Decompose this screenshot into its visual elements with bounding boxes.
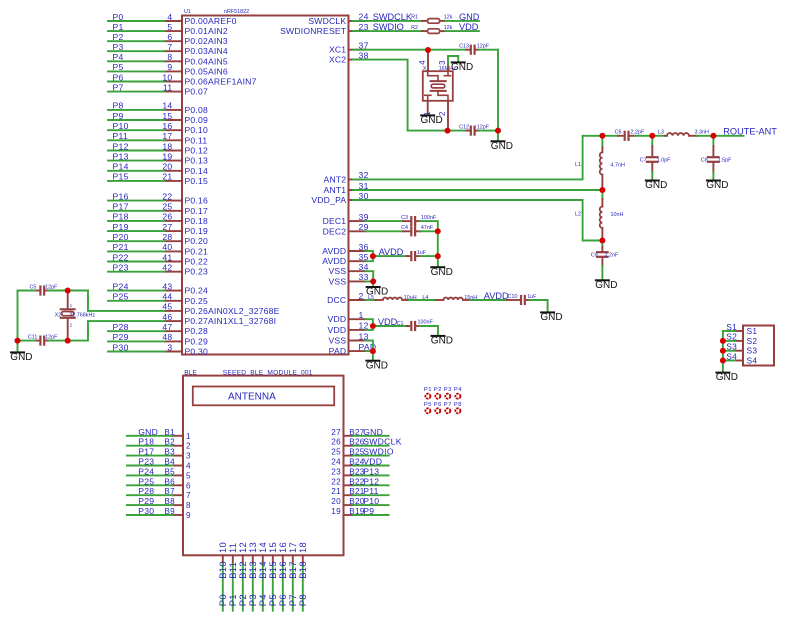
svg-text:P7: P7 bbox=[113, 82, 124, 92]
svg-text:S3: S3 bbox=[726, 342, 737, 352]
svg-text:P24: P24 bbox=[113, 281, 129, 291]
junction XC1/X1-4 bbox=[425, 47, 431, 53]
svg-text:P8: P8 bbox=[113, 101, 124, 111]
BLE pin 4 (B4) / net P23 bbox=[127, 457, 191, 471]
BLE pin 11 (B11) / net P1 bbox=[227, 543, 238, 611]
wire ANT1 (pin31 to L1/L2 junction) bbox=[353, 189, 602, 191]
U1 pin 7 (P0.03AIN4) / net P3 bbox=[108, 42, 228, 56]
U1 pin 28 (P0.20) / net P20 bbox=[108, 232, 208, 246]
U1 pin 37 (XC1) bbox=[329, 41, 369, 55]
U1 pin 23 (SWDIONRESET) bbox=[280, 22, 369, 36]
svg-text:P6: P6 bbox=[113, 72, 124, 82]
svg-text:SEEED_BLE_MODULE_001: SEEED_BLE_MODULE_001 bbox=[223, 369, 313, 376]
svg-text:11: 11 bbox=[163, 82, 173, 92]
svg-text:P9: P9 bbox=[363, 506, 374, 516]
svg-text:21: 21 bbox=[331, 487, 341, 496]
svg-text:VSS: VSS bbox=[329, 276, 347, 286]
wire DEC1 (pin39 to C3) bbox=[366, 220, 404, 222]
svg-text:P25: P25 bbox=[113, 292, 129, 302]
svg-text:GND: GND bbox=[645, 180, 667, 191]
test pad P8 bbox=[454, 402, 462, 413]
U1 pin 39 (DEC1) bbox=[323, 212, 369, 226]
svg-text:SWDCLK: SWDCLK bbox=[373, 12, 413, 22]
svg-text:100nF: 100nF bbox=[421, 215, 437, 221]
inductor L4 15nH bbox=[436, 295, 477, 301]
svg-text:P0.25: P0.25 bbox=[185, 296, 208, 306]
IC BLE SEEED_BLE_MODULE_001 body bbox=[183, 369, 344, 555]
U1 pin 4 (P0.00AREF0) / net P0 bbox=[108, 12, 237, 26]
svg-text:P0.24: P0.24 bbox=[185, 286, 208, 296]
svg-text:P30: P30 bbox=[113, 342, 129, 352]
svg-text:R1: R1 bbox=[411, 15, 418, 21]
junction X2 rail/GND bbox=[15, 338, 21, 344]
BLE pin 22 (B22) / net P12 bbox=[331, 476, 388, 486]
svg-text:P0.30: P0.30 bbox=[185, 347, 208, 357]
svg-text:48: 48 bbox=[162, 332, 172, 342]
junction S3 bbox=[720, 348, 726, 354]
ground GND (C10) bbox=[540, 312, 562, 323]
svg-text:GND: GND bbox=[595, 280, 617, 291]
svg-text:AVDD: AVDD bbox=[322, 246, 346, 256]
svg-text:P20: P20 bbox=[113, 232, 129, 242]
svg-text:VDD: VDD bbox=[328, 314, 347, 324]
wire XC2 (pin38 around crystal) bbox=[353, 60, 448, 131]
junction AVDD branch bbox=[370, 253, 376, 259]
U1 pin 8 (P0.04AIN5) / net P4 bbox=[108, 52, 228, 66]
crystal X1 16MHz body bbox=[423, 66, 456, 101]
svg-text:42: 42 bbox=[162, 263, 172, 273]
svg-text:6: 6 bbox=[167, 32, 172, 42]
inductor L5 10uH bbox=[376, 295, 417, 301]
svg-text:C7: C7 bbox=[640, 158, 647, 164]
capacitor C8 1.5pF bbox=[701, 136, 732, 180]
svg-text:P14: P14 bbox=[113, 162, 129, 172]
svg-text:L2: L2 bbox=[575, 212, 581, 218]
X1 pin 4 lead bbox=[418, 50, 428, 71]
U1 pin 6 (P0.02AIN3) / net P2 bbox=[108, 32, 228, 46]
svg-text:43: 43 bbox=[162, 281, 172, 291]
svg-text:S2: S2 bbox=[726, 332, 737, 342]
net SWDIO wire + label bbox=[353, 22, 422, 32]
capacitor C5 12pF bbox=[29, 285, 58, 295]
svg-text:P0.09: P0.09 bbox=[185, 115, 208, 125]
test pad P7 bbox=[444, 402, 452, 413]
svg-text:2: 2 bbox=[438, 112, 447, 116]
inductor L2 10nH bbox=[575, 190, 623, 241]
svg-text:P3: P3 bbox=[113, 42, 124, 52]
svg-text:SWDIONRESET: SWDIONRESET bbox=[280, 26, 347, 36]
svg-text:XC1: XC1 bbox=[329, 45, 346, 55]
svg-text:P0.14: P0.14 bbox=[185, 166, 208, 176]
connector pin S2 / net S2 bbox=[723, 332, 757, 346]
svg-text:L3: L3 bbox=[658, 130, 664, 136]
capacitor C10 1uF bbox=[507, 294, 537, 304]
svg-text:14: 14 bbox=[162, 101, 172, 111]
svg-text:P6: P6 bbox=[434, 402, 442, 408]
U1 pin 14 (P0.08) / net P8 bbox=[108, 101, 208, 115]
U1 pin 43 (P0.24) / net P24 bbox=[108, 281, 208, 295]
svg-text:5: 5 bbox=[167, 22, 172, 32]
BLE pin 19 (B19) / net P9 bbox=[331, 506, 388, 516]
svg-text:27: 27 bbox=[162, 222, 172, 232]
svg-text:12pF: 12pF bbox=[477, 124, 490, 130]
ANTENNA block bbox=[193, 387, 334, 406]
svg-text:GND: GND bbox=[491, 141, 513, 152]
wire VDD bracket (pins 1+12) bbox=[366, 319, 373, 330]
svg-text:47nF: 47nF bbox=[421, 225, 434, 231]
svg-text:P1: P1 bbox=[424, 387, 432, 393]
svg-text:P0.26AIN0XL2_32768E: P0.26AIN0XL2_32768E bbox=[185, 306, 280, 316]
svg-text:P2: P2 bbox=[434, 387, 442, 393]
svg-text:4: 4 bbox=[186, 462, 191, 471]
svg-text:C4: C4 bbox=[401, 225, 408, 231]
ground GND (C9) bbox=[595, 280, 617, 291]
U1 pin 24 (SWDCLK) bbox=[308, 12, 368, 26]
junction L3/C8/ROUTE-ANT bbox=[710, 133, 716, 139]
svg-text:3.3nH: 3.3nH bbox=[695, 130, 709, 136]
svg-text:40: 40 bbox=[162, 242, 172, 252]
svg-text:1: 1 bbox=[359, 310, 364, 320]
U1 pin 47 (P0.28) / net P28 bbox=[108, 322, 208, 336]
svg-text:P12: P12 bbox=[113, 141, 129, 151]
svg-text:P0.28: P0.28 bbox=[185, 326, 208, 336]
net VDD label (R2) bbox=[445, 22, 479, 32]
wire VDD_PA (pin30 to L2 bottom) bbox=[353, 200, 602, 241]
capacitor C3 100nF bbox=[401, 215, 437, 225]
BLE pin 5 (B5) / net P24 bbox=[127, 466, 191, 480]
svg-text:P0.00AREF0: P0.00AREF0 bbox=[185, 16, 237, 26]
svg-text:P0.18: P0.18 bbox=[185, 216, 208, 226]
svg-text:VDD: VDD bbox=[328, 325, 347, 335]
wire VSS bracket (pins 34+33) bbox=[366, 271, 374, 281]
svg-text:GND: GND bbox=[716, 372, 738, 383]
U1 pin 17 (P0.11) / net P11 bbox=[108, 131, 207, 145]
svg-text:P0.07: P0.07 bbox=[185, 87, 208, 97]
svg-text:C9: C9 bbox=[591, 253, 598, 259]
svg-text:AVDD: AVDD bbox=[379, 247, 404, 257]
svg-text:ANT1: ANT1 bbox=[324, 185, 347, 195]
svg-text:AVDD: AVDD bbox=[484, 291, 509, 301]
svg-text:12pF: 12pF bbox=[477, 43, 490, 49]
BLE pin 2 (B2) / net P18 bbox=[127, 437, 191, 451]
svg-text:DEC2: DEC2 bbox=[323, 226, 347, 236]
wire XC1 right rail bbox=[479, 50, 498, 131]
svg-text:P28: P28 bbox=[138, 486, 154, 496]
inductor L1 4.7nH bbox=[575, 136, 625, 190]
BLE pin 9 (B9) / net P30 bbox=[127, 506, 191, 520]
svg-text:9: 9 bbox=[186, 511, 191, 520]
svg-text:GND: GND bbox=[451, 62, 473, 73]
U1 pin 38 (XC2) bbox=[329, 50, 369, 64]
svg-text:P13: P13 bbox=[113, 151, 129, 161]
ground GND (X1 pin3) bbox=[451, 56, 473, 73]
svg-text:B9: B9 bbox=[164, 507, 175, 516]
junction rail bottom bbox=[495, 128, 501, 134]
svg-text:P15: P15 bbox=[113, 172, 129, 182]
svg-text:GND: GND bbox=[459, 12, 480, 22]
svg-text:L1: L1 bbox=[575, 162, 581, 168]
svg-text:B18: B18 bbox=[297, 561, 308, 579]
junction X2 top bbox=[65, 288, 71, 294]
wire X2 top to pin45 bbox=[68, 291, 88, 311]
svg-text:9: 9 bbox=[167, 62, 172, 72]
U1 pin 5 (P0.01AIN2) / net P1 bbox=[108, 22, 228, 36]
svg-text:ROUTE-ANT: ROUTE-ANT bbox=[723, 127, 777, 137]
svg-text:P17: P17 bbox=[138, 447, 154, 457]
svg-text:P0.06AREF1AIN7: P0.06AREF1AIN7 bbox=[185, 77, 257, 87]
wire VSS13/PAD bracket bbox=[366, 341, 373, 352]
svg-text:P23: P23 bbox=[138, 457, 154, 467]
svg-text:C1: C1 bbox=[397, 321, 404, 327]
junction DEC rail bbox=[435, 228, 441, 234]
svg-text:4: 4 bbox=[167, 12, 172, 22]
svg-text:GND: GND bbox=[431, 336, 453, 347]
capacitor C12 12pF bbox=[448, 124, 490, 134]
svg-text:P23: P23 bbox=[113, 263, 129, 273]
svg-text:P3: P3 bbox=[444, 387, 452, 393]
svg-text:P4: P4 bbox=[454, 387, 462, 393]
svg-text:C13: C13 bbox=[459, 43, 469, 49]
svg-text:C10: C10 bbox=[508, 294, 518, 300]
svg-text:10: 10 bbox=[162, 72, 172, 82]
svg-text:L4: L4 bbox=[422, 295, 428, 301]
svg-text:B8: B8 bbox=[164, 497, 175, 506]
svg-text:P1: P1 bbox=[113, 22, 124, 32]
BLE pin 15 (B15) / net P5 bbox=[267, 542, 278, 611]
svg-text:XC2: XC2 bbox=[329, 55, 346, 65]
svg-text:1.5pF: 1.5pF bbox=[718, 158, 732, 164]
svg-text:18: 18 bbox=[297, 542, 308, 553]
BLE pin 7 (B7) / net P28 bbox=[127, 486, 191, 500]
svg-text:P2: P2 bbox=[113, 32, 124, 42]
U1 pin 34 (VSS) bbox=[329, 262, 369, 276]
svg-text:VDD: VDD bbox=[459, 22, 479, 32]
svg-text:41: 41 bbox=[162, 252, 172, 262]
svg-text:R2: R2 bbox=[411, 25, 418, 31]
svg-text:P10: P10 bbox=[363, 496, 379, 506]
U1 pin PAD (PAD) bbox=[329, 342, 377, 356]
svg-text:P11: P11 bbox=[363, 486, 379, 496]
svg-text:P0.22: P0.22 bbox=[185, 257, 208, 267]
capacitor C4 47nF bbox=[401, 225, 434, 235]
svg-text:2.2nF: 2.2nF bbox=[605, 253, 619, 259]
svg-text:PAD: PAD bbox=[329, 346, 347, 356]
U1 pin 35 (AVDD) bbox=[322, 252, 368, 266]
U1 pin 10 (P0.06AREF1AIN7) / net P6 bbox=[108, 72, 257, 86]
test pad P4 bbox=[454, 387, 462, 399]
junction ANT2/C6/L1 bbox=[599, 133, 605, 139]
svg-text:25: 25 bbox=[162, 202, 172, 212]
svg-text:P0: P0 bbox=[113, 12, 124, 22]
svg-text:26: 26 bbox=[162, 212, 172, 222]
connector pin S1 / net S1 bbox=[723, 322, 757, 336]
svg-text:SWDCLK: SWDCLK bbox=[363, 437, 402, 447]
svg-text:23: 23 bbox=[331, 467, 341, 476]
BLE pin 20 (B20) / net P10 bbox=[331, 496, 388, 506]
svg-text:P12: P12 bbox=[363, 476, 379, 486]
svg-text:C11: C11 bbox=[28, 335, 38, 341]
svg-text:P28: P28 bbox=[113, 322, 129, 332]
svg-text:B1: B1 bbox=[164, 428, 175, 437]
svg-text:S4: S4 bbox=[747, 356, 758, 366]
test pad P5 bbox=[424, 402, 432, 413]
wire S rail bbox=[722, 331, 724, 372]
ground GND (VSS 34/33) bbox=[366, 281, 388, 297]
svg-text:VSS: VSS bbox=[329, 336, 347, 346]
svg-text:1.0pF: 1.0pF bbox=[657, 158, 671, 164]
U1 pin 18 (P0.12) / net P12 bbox=[108, 141, 208, 155]
U1 pin 9 (P0.05AIN6) / net P5 bbox=[108, 62, 228, 76]
svg-text:C12: C12 bbox=[459, 124, 469, 130]
U1 pin 32 (ANT2) bbox=[324, 170, 369, 184]
U1 pin 48 (P0.29) / net P29 bbox=[108, 332, 208, 346]
U1 pin 40 (P0.21) / net P21 bbox=[108, 242, 208, 256]
IC U1 nRF51822 body bbox=[182, 9, 349, 354]
svg-text:100nF: 100nF bbox=[418, 320, 434, 326]
svg-text:2: 2 bbox=[186, 442, 191, 451]
svg-text:7: 7 bbox=[186, 491, 191, 500]
svg-text:P0.13: P0.13 bbox=[185, 156, 208, 166]
svg-text:C5: C5 bbox=[29, 285, 36, 291]
wire X2 bottom (C11 row) bbox=[18, 340, 37, 342]
svg-text:S3: S3 bbox=[747, 346, 758, 356]
svg-text:GND: GND bbox=[10, 352, 32, 363]
ground GND (X2) bbox=[10, 341, 32, 363]
test pad P1 bbox=[424, 387, 432, 399]
svg-text:P13: P13 bbox=[363, 466, 379, 476]
crystal X2 32.768kHz bbox=[55, 291, 96, 341]
wire AVDD bracket (pins 36+35) bbox=[366, 251, 373, 261]
wire X2 top (C5 row) bbox=[18, 290, 37, 292]
wire ANT2 (pin32 to C6 junction) bbox=[353, 136, 602, 180]
svg-text:P18: P18 bbox=[113, 212, 129, 222]
wire C4 to GND rail bbox=[420, 230, 438, 232]
svg-text:B2: B2 bbox=[164, 438, 175, 447]
svg-text:P0.16: P0.16 bbox=[185, 196, 208, 206]
ground GND (X1 pin1) bbox=[421, 115, 443, 126]
svg-text:P0.04AIN5: P0.04AIN5 bbox=[185, 56, 228, 66]
svg-text:P0.20: P0.20 bbox=[185, 236, 208, 246]
svg-text:17: 17 bbox=[162, 131, 172, 141]
svg-text:B3: B3 bbox=[164, 448, 175, 457]
svg-text:21: 21 bbox=[162, 172, 172, 182]
svg-text:GND: GND bbox=[138, 427, 158, 437]
svg-text:DCC: DCC bbox=[327, 295, 346, 305]
svg-text:C6: C6 bbox=[615, 130, 622, 136]
svg-text:3: 3 bbox=[438, 60, 447, 64]
svg-text:P0.05AIN6: P0.05AIN6 bbox=[185, 66, 228, 76]
U1 pin 1 (VDD) bbox=[328, 310, 366, 324]
svg-text:P0.12: P0.12 bbox=[185, 146, 208, 156]
svg-text:P22: P22 bbox=[113, 252, 129, 262]
svg-text:P17: P17 bbox=[113, 202, 129, 212]
capacitor C2 1uF (AVDD) bbox=[407, 250, 427, 260]
svg-text:P0.03AIN4: P0.03AIN4 bbox=[185, 46, 228, 56]
svg-text:2: 2 bbox=[359, 291, 364, 301]
wire C2 to GND rail bbox=[420, 255, 438, 257]
svg-text:16: 16 bbox=[162, 121, 172, 131]
U1 pin 22 (P0.16) / net P16 bbox=[108, 191, 208, 205]
svg-text:24: 24 bbox=[331, 458, 341, 467]
BLE pin 24 (B24) / net VDD bbox=[331, 457, 388, 467]
resistor R2 12k bbox=[411, 25, 453, 34]
svg-text:26: 26 bbox=[331, 438, 341, 447]
svg-text:P29: P29 bbox=[113, 332, 129, 342]
svg-text:P5: P5 bbox=[424, 402, 432, 408]
svg-text:20: 20 bbox=[331, 497, 341, 506]
svg-text:GND: GND bbox=[366, 360, 388, 371]
BLE pin 26 (B26) / net SWDCLK bbox=[331, 437, 401, 447]
svg-text:P4: P4 bbox=[113, 52, 124, 62]
svg-text:P7: P7 bbox=[444, 402, 452, 408]
U1 pin 2 (DCC) bbox=[327, 291, 365, 305]
svg-text:GND: GND bbox=[431, 267, 453, 278]
svg-text:27: 27 bbox=[331, 428, 341, 437]
svg-text:VDD_PA: VDD_PA bbox=[311, 195, 346, 205]
svg-text:4: 4 bbox=[418, 60, 427, 65]
ground GND (C7) bbox=[645, 180, 667, 191]
junction L2/VDD_PA/C9 bbox=[599, 238, 605, 244]
test pad P2 bbox=[434, 387, 442, 399]
capacitor C1 100nF bbox=[397, 320, 434, 330]
svg-text:P5: P5 bbox=[113, 62, 124, 72]
svg-text:P19: P19 bbox=[113, 222, 129, 232]
ground GND (C1) bbox=[431, 336, 453, 347]
U1 pin 12 (VDD) bbox=[328, 321, 369, 335]
svg-text:6: 6 bbox=[186, 481, 191, 490]
ground GND (PAD) bbox=[366, 351, 388, 371]
resistor R1 12k bbox=[411, 15, 453, 24]
svg-text:P9: P9 bbox=[113, 111, 124, 121]
connector pin S4 / net S4 bbox=[723, 351, 757, 365]
svg-text:28: 28 bbox=[162, 232, 172, 242]
svg-text:P0.01AIN2: P0.01AIN2 bbox=[185, 26, 228, 36]
svg-text:P0.17: P0.17 bbox=[185, 206, 208, 216]
svg-text:22: 22 bbox=[162, 191, 172, 201]
junction VDD branch bbox=[370, 323, 376, 329]
U1 pin 20 (P0.14) / net P14 bbox=[108, 162, 208, 176]
svg-text:8: 8 bbox=[167, 52, 172, 62]
wire DEC rail down bbox=[437, 231, 439, 256]
BLE pin 17 (B17) / net P7 bbox=[287, 542, 298, 611]
svg-text:P0.23: P0.23 bbox=[185, 267, 208, 277]
svg-text:S1: S1 bbox=[726, 322, 737, 332]
svg-text:22: 22 bbox=[331, 477, 341, 486]
X1 pin 1 lead bbox=[423, 101, 432, 116]
BLE pin 25 (B25) / net SWDIO bbox=[331, 447, 394, 457]
ground GND (S rail) bbox=[716, 372, 738, 383]
U1 pin 41 (P0.22) / net P22 bbox=[108, 252, 208, 266]
svg-text:B6: B6 bbox=[164, 477, 175, 486]
U1 pin 29 (DEC2) bbox=[323, 222, 369, 236]
svg-text:12k: 12k bbox=[444, 25, 453, 31]
svg-text:44: 44 bbox=[162, 292, 172, 302]
BLE pin 8 (B8) / net P29 bbox=[127, 496, 191, 510]
svg-text:P24: P24 bbox=[138, 466, 154, 476]
svg-text:B5: B5 bbox=[164, 467, 175, 476]
U1 pin 21 (P0.15) / net P15 bbox=[108, 172, 208, 186]
svg-text:45: 45 bbox=[162, 302, 172, 312]
X1 pin 2 lead bbox=[438, 101, 448, 131]
svg-text:P0.29: P0.29 bbox=[185, 336, 208, 346]
svg-text:32.768kHz: 32.768kHz bbox=[69, 312, 95, 318]
svg-text:X2: X2 bbox=[55, 312, 62, 318]
BLE pin 1 (B1) / net GND bbox=[127, 427, 191, 441]
BLE pin 16 (B16) / net P6 bbox=[277, 542, 288, 611]
svg-text:P10: P10 bbox=[113, 121, 129, 131]
BLE pin 12 (B12) / net P2 bbox=[237, 542, 248, 611]
svg-text:P18: P18 bbox=[138, 437, 154, 447]
